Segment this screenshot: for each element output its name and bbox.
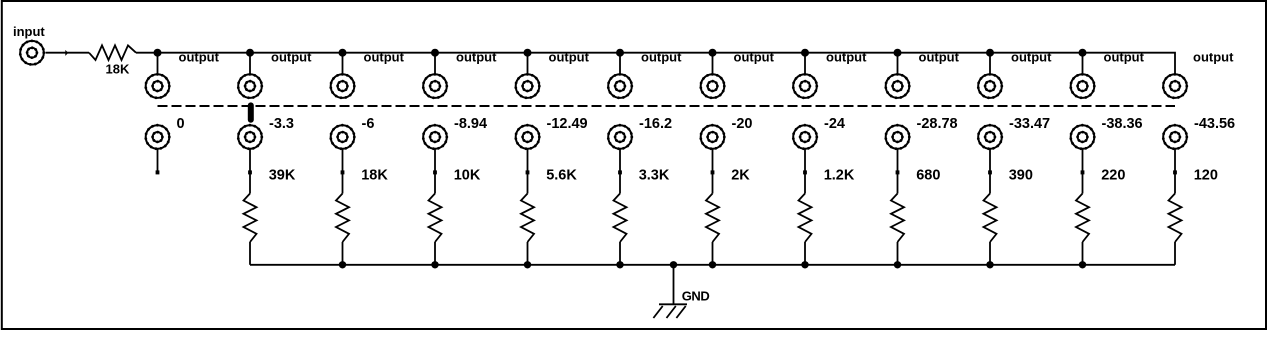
svg-text:5.6K: 5.6K [546,168,577,184]
svg-text:output: output [1104,49,1145,64]
svg-text:-12.49: -12.49 [547,116,588,132]
svg-text:output: output [1011,49,1052,64]
svg-text:-28.78: -28.78 [917,116,958,132]
svg-text:output: output [549,49,590,64]
svg-text:0: 0 [177,116,185,132]
svg-text:output: output [1193,49,1234,64]
svg-text:18K: 18K [106,62,130,77]
svg-text:-8.94: -8.94 [454,116,487,132]
svg-text:GND: GND [682,288,710,303]
svg-text:output: output [641,49,682,64]
svg-text:220: 220 [1101,168,1125,184]
svg-text:-38.36: -38.36 [1102,116,1143,132]
svg-text:3.3K: 3.3K [639,168,670,184]
svg-text:10K: 10K [454,168,481,184]
svg-text:680: 680 [916,168,940,184]
svg-text:-3.3: -3.3 [269,116,294,132]
svg-text:-20: -20 [732,116,753,132]
svg-text:390: 390 [1009,168,1033,184]
svg-text:output: output [271,49,312,64]
svg-text:output: output [179,49,220,64]
svg-text:-6: -6 [362,116,375,132]
svg-text:1.2K: 1.2K [824,168,855,184]
svg-text:-16.2: -16.2 [639,116,672,132]
svg-text:output: output [734,49,775,64]
svg-text:output: output [456,49,497,64]
svg-text:-43.56: -43.56 [1194,116,1235,132]
svg-text:-24: -24 [824,116,845,132]
svg-text:output: output [919,49,960,64]
svg-text:-33.47: -33.47 [1009,116,1050,132]
svg-text:120: 120 [1194,168,1218,184]
svg-text:input: input [13,24,45,39]
svg-text:output: output [826,49,867,64]
svg-text:18K: 18K [361,168,388,184]
svg-text:39K: 39K [269,168,296,184]
svg-text:output: output [364,49,405,64]
svg-text:2K: 2K [731,168,750,184]
